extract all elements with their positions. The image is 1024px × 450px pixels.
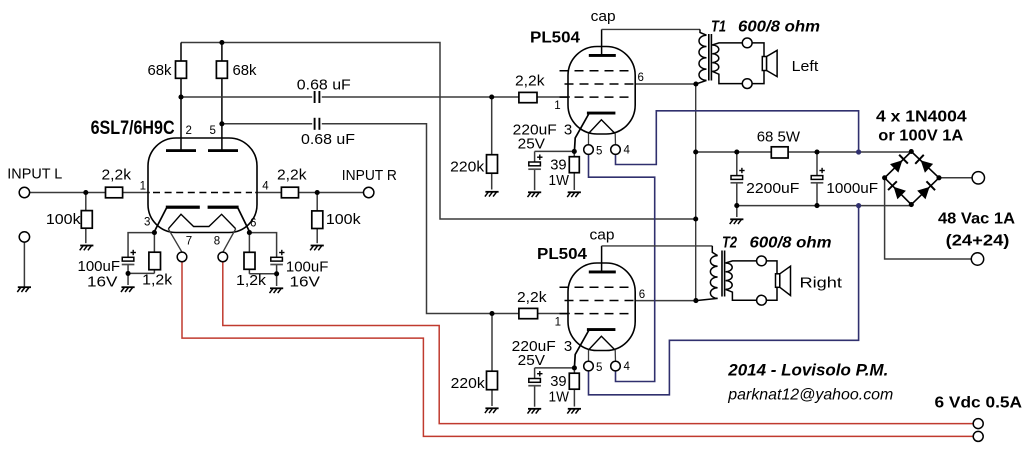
svg-text:PL504: PL504: [537, 246, 587, 263]
svg-text:6SL7/6H9C: 6SL7/6H9C: [91, 118, 175, 139]
svg-text:68 5W: 68 5W: [757, 129, 801, 146]
svg-text:Right: Right: [800, 275, 843, 292]
svg-text:1: 1: [554, 100, 560, 112]
svg-text:1W: 1W: [549, 389, 570, 406]
svg-text:220k: 220k: [450, 158, 485, 175]
svg-text:0.68 uF: 0.68 uF: [301, 131, 355, 148]
svg-text:0.68 uF: 0.68 uF: [297, 77, 351, 94]
svg-text:1W: 1W: [549, 172, 570, 189]
svg-text:100uF: 100uF: [78, 258, 121, 275]
svg-text:25V: 25V: [518, 136, 545, 153]
svg-text:INPUT L: INPUT L: [7, 166, 62, 183]
svg-text:1,2k: 1,2k: [142, 272, 173, 289]
svg-text:1: 1: [140, 181, 146, 193]
svg-text:16V: 16V: [290, 274, 321, 291]
svg-text:6: 6: [250, 218, 256, 230]
svg-text:1: 1: [555, 317, 561, 329]
svg-text:220k: 220k: [451, 375, 486, 392]
svg-text:parknat12@yahoo.com: parknat12@yahoo.com: [727, 387, 893, 404]
svg-text:5: 5: [596, 362, 602, 374]
svg-text:2,2k: 2,2k: [517, 289, 547, 306]
svg-text:6 Vdc 0.5A: 6 Vdc 0.5A: [935, 395, 1023, 412]
svg-text:INPUT R: INPUT R: [342, 167, 397, 184]
svg-text:4: 4: [262, 181, 269, 193]
svg-text:2,2k: 2,2k: [102, 166, 132, 183]
svg-text:T2: T2: [722, 235, 737, 252]
svg-text:2200uF: 2200uF: [746, 180, 799, 197]
svg-text:6: 6: [639, 289, 645, 301]
svg-text:600/8 ohm: 600/8 ohm: [750, 235, 832, 252]
svg-text:8: 8: [214, 236, 220, 248]
svg-text:5: 5: [210, 125, 216, 137]
svg-text:or 100V 1A: or 100V 1A: [878, 128, 963, 145]
svg-text:2: 2: [186, 125, 192, 137]
svg-text:68k: 68k: [148, 62, 172, 79]
svg-text:PL504: PL504: [530, 30, 580, 47]
svg-text:100k: 100k: [46, 211, 81, 228]
svg-text:2014 - Lovisolo P.M.: 2014 - Lovisolo P.M.: [727, 362, 888, 380]
svg-text:2,2k: 2,2k: [515, 73, 545, 90]
svg-text:2,2k: 2,2k: [277, 167, 307, 184]
svg-text:39: 39: [550, 156, 566, 173]
svg-text:7: 7: [186, 236, 192, 248]
svg-text:25V: 25V: [518, 352, 545, 369]
svg-text:3: 3: [564, 338, 572, 355]
svg-text:16V: 16V: [87, 274, 118, 291]
svg-text:4: 4: [624, 361, 631, 373]
svg-text:T1: T1: [711, 19, 726, 36]
svg-text:(24+24): (24+24): [946, 233, 1010, 250]
svg-text:600/8 ohm: 600/8 ohm: [738, 19, 820, 36]
svg-text:3: 3: [144, 217, 150, 229]
svg-text:cap: cap: [591, 9, 616, 25]
svg-text:68k: 68k: [233, 62, 257, 79]
svg-text:1000uF: 1000uF: [826, 180, 878, 197]
svg-text:4 x 1N4004: 4 x 1N4004: [876, 108, 967, 125]
svg-text:1,2k: 1,2k: [236, 272, 267, 289]
svg-text:39: 39: [550, 373, 566, 390]
svg-text:cap: cap: [590, 228, 615, 244]
svg-text:3: 3: [564, 122, 572, 139]
svg-text:6: 6: [638, 72, 644, 84]
svg-text:100k: 100k: [326, 211, 361, 228]
svg-text:4: 4: [624, 145, 631, 157]
svg-text:48 Vac 1A: 48 Vac 1A: [938, 211, 1015, 228]
svg-text:Left: Left: [792, 58, 819, 75]
svg-text:5: 5: [596, 146, 602, 158]
